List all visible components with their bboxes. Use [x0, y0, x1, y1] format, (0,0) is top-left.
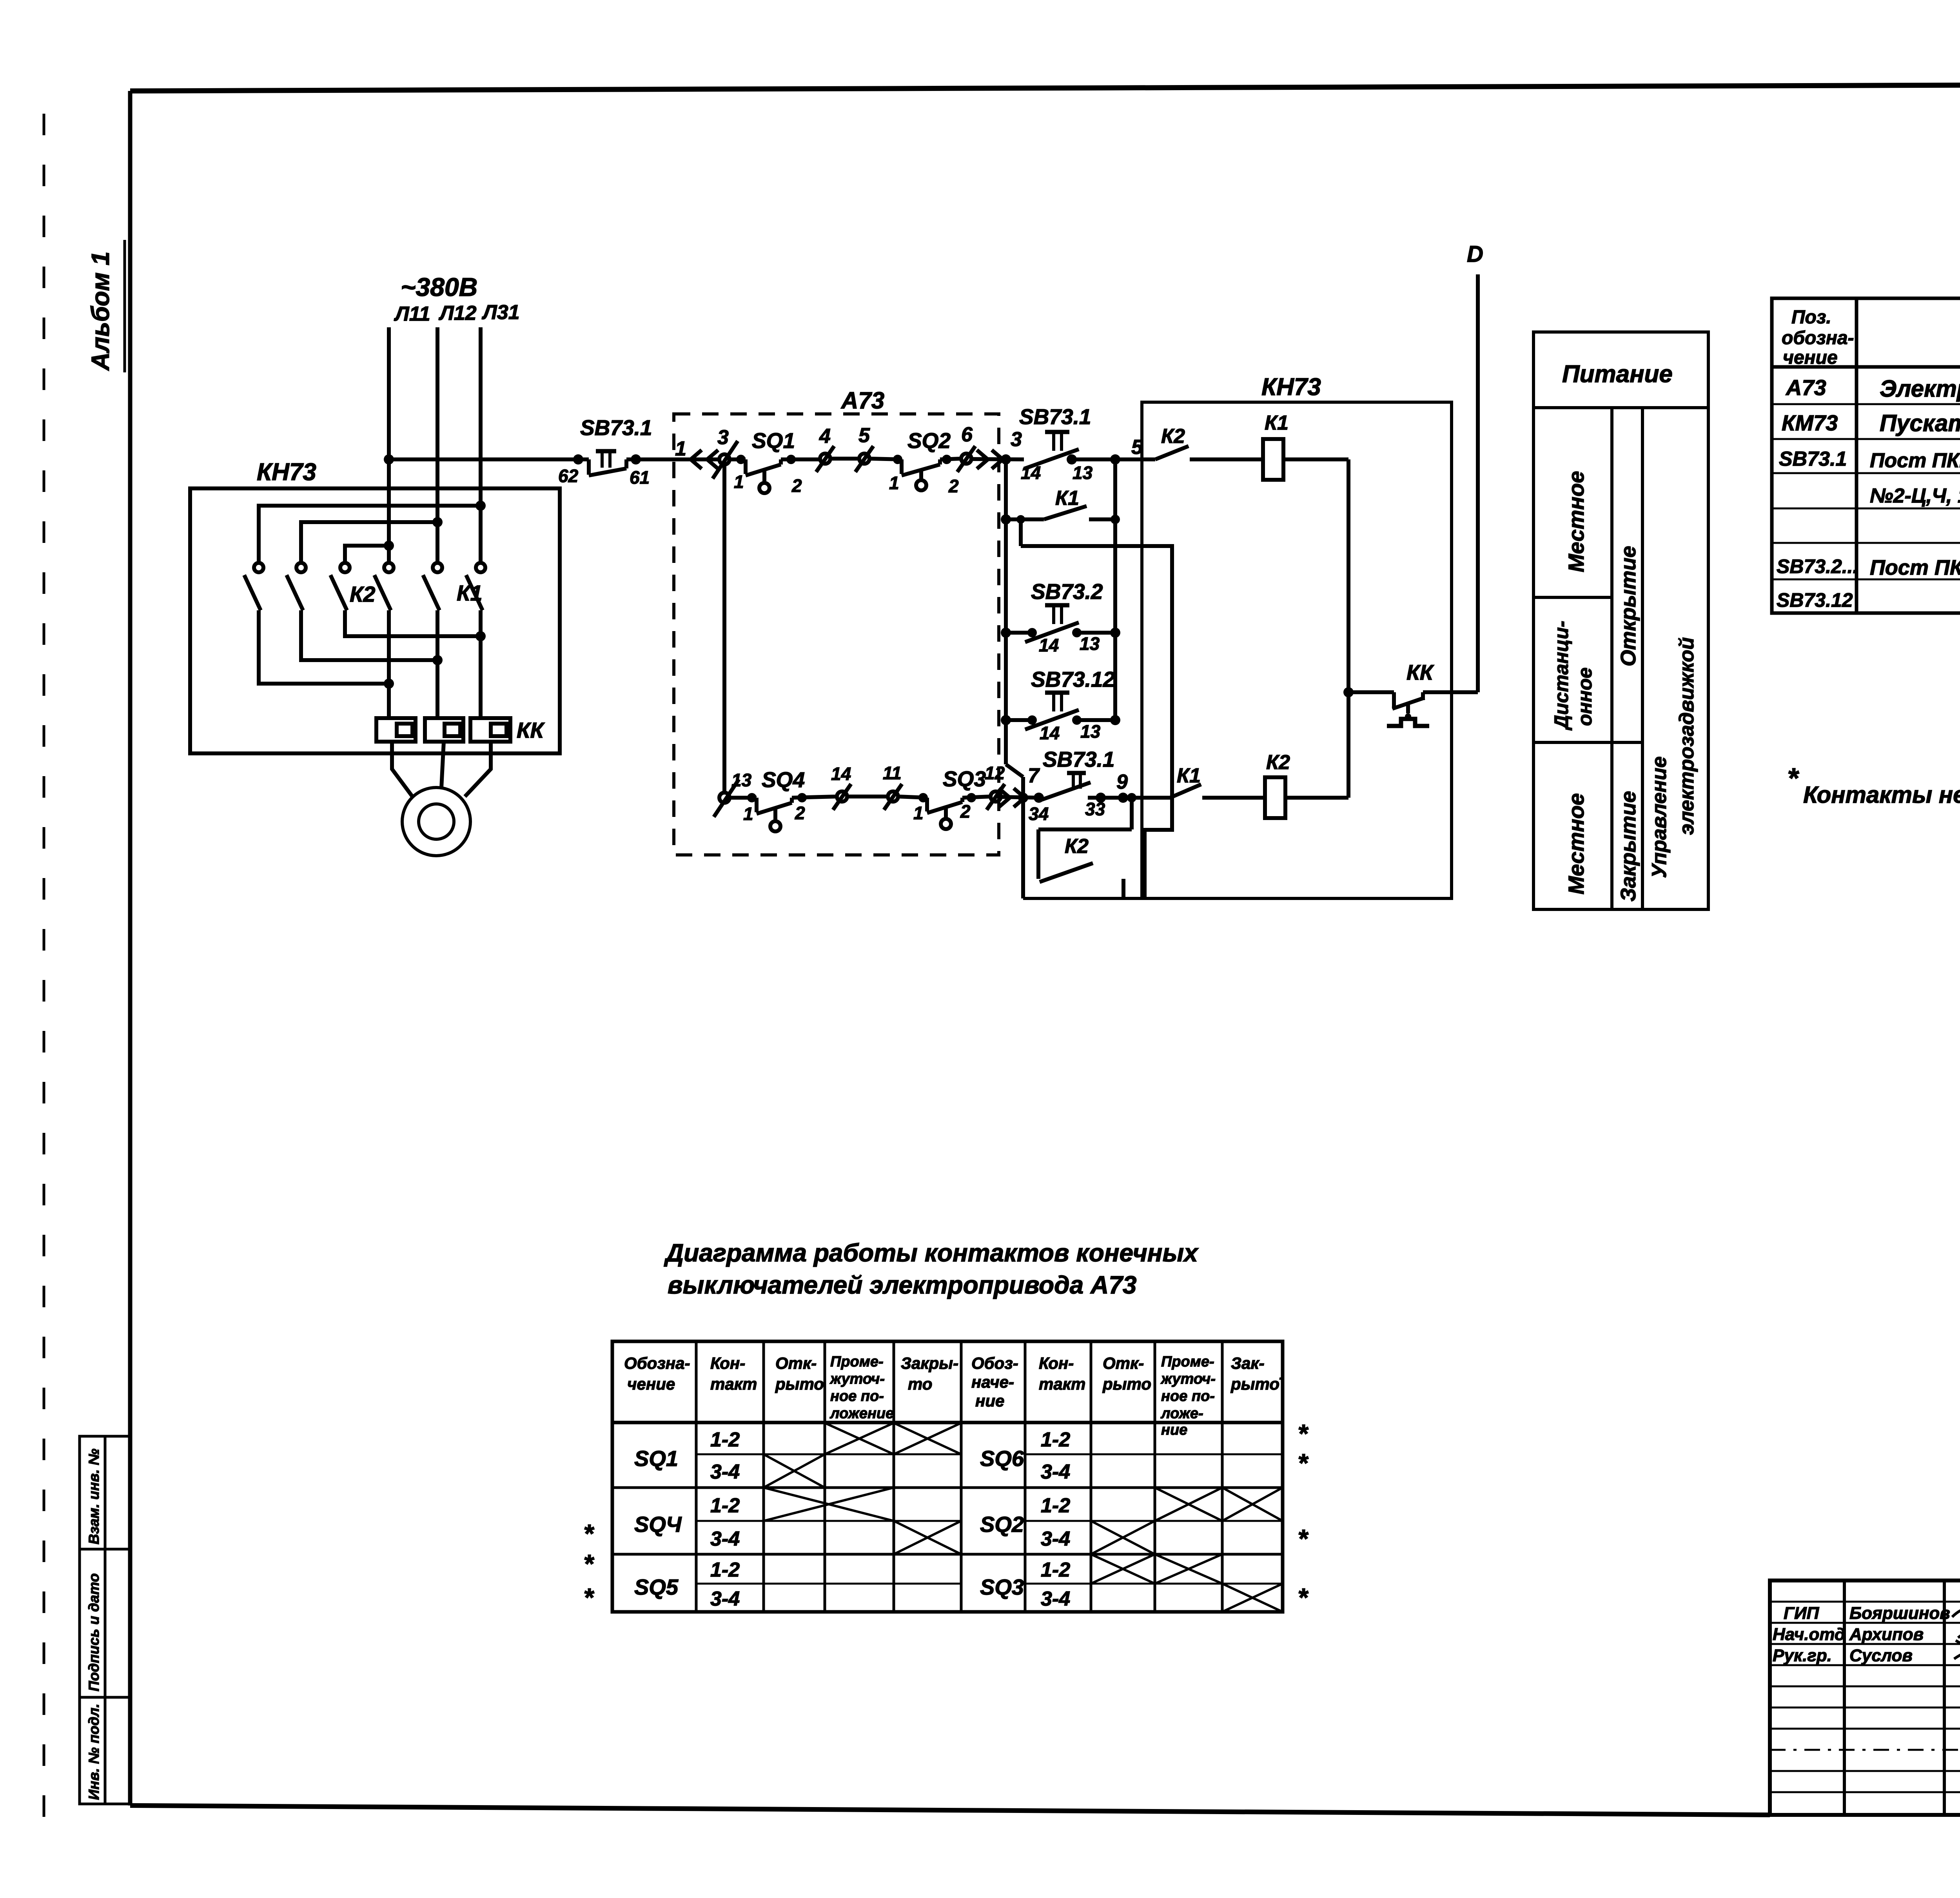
svg-text:62: 62	[558, 466, 579, 486]
svg-text:Диаграмма работы контактов кон: Диаграмма работы контактов конечных	[664, 1239, 1199, 1267]
svg-text:3-4: 3-4	[1041, 1588, 1070, 1610]
svg-text:9: 9	[1116, 771, 1128, 793]
svg-text:КК: КК	[517, 718, 545, 742]
svg-text:3-4: 3-4	[710, 1528, 740, 1550]
svg-text:2: 2	[795, 803, 805, 823]
svg-text:К1: К1	[457, 581, 483, 605]
svg-text:ние: ние	[1161, 1422, 1187, 1438]
svg-text:1: 1	[675, 437, 686, 460]
svg-text:электрозадвижкой: электрозадвижкой	[1675, 637, 1698, 835]
svg-text:Проме-: Проме-	[1161, 1354, 1214, 1370]
svg-text:SQ3: SQ3	[943, 767, 986, 791]
svg-text:К2: К2	[1161, 425, 1185, 448]
svg-text:жуточ-: жуточ-	[829, 1371, 885, 1387]
svg-text:14: 14	[1040, 723, 1060, 743]
svg-text:Л31: Л31	[481, 301, 520, 324]
svg-text:Бояршинов: Бояршинов	[1849, 1604, 1950, 1623]
svg-text:Кон-: Кон-	[710, 1354, 745, 1372]
svg-text:33: 33	[1085, 799, 1105, 819]
svg-text:1: 1	[913, 803, 924, 823]
svg-text:2: 2	[948, 476, 959, 496]
svg-text:К2: К2	[1266, 751, 1290, 774]
svg-text:*: *	[1788, 763, 1799, 794]
svg-text:то: то	[908, 1375, 932, 1393]
svg-text:13: 13	[731, 770, 752, 790]
svg-text:Питание: Питание	[1562, 361, 1673, 388]
svg-text:К1: К1	[1177, 764, 1201, 787]
svg-text:SQ1: SQ1	[634, 1446, 678, 1471]
svg-text:Подпись и дато: Подпись и дато	[86, 1573, 102, 1691]
svg-text:такт: такт	[710, 1375, 757, 1393]
svg-text:чение: чение	[627, 1375, 675, 1393]
svg-text:13: 13	[1080, 633, 1100, 654]
svg-text:5: 5	[1131, 436, 1143, 459]
svg-text:Л11: Л11	[394, 303, 430, 325]
svg-text:D: D	[1467, 241, 1483, 267]
svg-text:Альбом 1: Альбом 1	[86, 252, 114, 371]
svg-text:КН73: КН73	[257, 459, 316, 486]
svg-text:А73: А73	[1785, 375, 1826, 400]
svg-text:онное: онное	[1574, 668, 1596, 726]
svg-text:К2: К2	[1065, 835, 1089, 858]
svg-text:14: 14	[1039, 635, 1059, 655]
svg-text:1-2: 1-2	[710, 1428, 740, 1451]
svg-text:SQЧ: SQЧ	[634, 1512, 682, 1537]
svg-text:Проме-: Проме-	[830, 1354, 884, 1370]
svg-text:SQ4: SQ4	[762, 768, 805, 792]
svg-text:ное по-: ное по-	[1161, 1388, 1215, 1404]
svg-text:*: *	[583, 1549, 595, 1578]
svg-text:14: 14	[831, 764, 851, 784]
svg-text:Пост ПКЕ222-3У3, 1/2″; №1-Ц,4,: Пост ПКЕ222-3У3, 1/2″; №1-Ц,4, 1з+1р „От…	[1870, 449, 1960, 472]
svg-text:Закры-: Закры-	[901, 1354, 958, 1372]
svg-text:3-4: 3-4	[1041, 1528, 1070, 1550]
svg-text:рыто: рыто	[775, 1375, 824, 1393]
svg-text:SВ73.1: SВ73.1	[1043, 747, 1114, 771]
svg-text:SВ73.12: SВ73.12	[1777, 589, 1853, 611]
svg-text:1-2: 1-2	[710, 1494, 740, 1517]
svg-text:*: *	[1298, 1419, 1309, 1448]
svg-text:6: 6	[961, 423, 973, 446]
svg-text:КМ73: КМ73	[1782, 410, 1838, 435]
svg-text:SQ2: SQ2	[980, 1512, 1024, 1537]
svg-text:3: 3	[1011, 428, 1022, 451]
svg-text:SВ73.1: SВ73.1	[1019, 405, 1091, 429]
svg-text:Обозна-: Обозна-	[624, 1354, 690, 1372]
svg-text:Инв. № подл.: Инв. № подл.	[86, 1704, 102, 1800]
svg-text:ние: ние	[975, 1392, 1004, 1410]
svg-text:61: 61	[630, 467, 650, 488]
svg-text:обозна-: обозна-	[1782, 328, 1854, 348]
svg-text:Кон-: Кон-	[1039, 1354, 1074, 1372]
svg-text:34: 34	[1029, 804, 1049, 824]
svg-text:Дистанци-: Дистанци-	[1550, 621, 1572, 731]
svg-text:1: 1	[889, 473, 899, 493]
svg-text:13: 13	[1080, 721, 1101, 742]
svg-text:Пускатель магнитный: Пускатель магнитный	[1880, 410, 1960, 436]
svg-text:*: *	[583, 1519, 595, 1548]
svg-text:2: 2	[960, 801, 971, 822]
svg-text:Нач.отд: Нач.отд	[1773, 1625, 1845, 1644]
svg-text:2: 2	[791, 475, 802, 496]
svg-text:ложение: ложение	[829, 1405, 894, 1422]
svg-text:*: *	[1298, 1583, 1309, 1612]
svg-text:Архипов: Архипов	[1849, 1625, 1924, 1644]
svg-text:К2: К2	[350, 582, 376, 606]
svg-text:SQ6: SQ6	[980, 1446, 1024, 1471]
svg-text:ное по-: ное по-	[830, 1388, 884, 1404]
svg-text:чение: чение	[1783, 347, 1838, 368]
svg-text:1-2: 1-2	[710, 1559, 740, 1581]
svg-text:наче-: наче-	[971, 1373, 1014, 1391]
svg-text:такт: такт	[1039, 1375, 1085, 1393]
svg-text:SВ73.12: SВ73.12	[1031, 667, 1115, 691]
svg-text:жуточ-: жуточ-	[1160, 1371, 1216, 1387]
svg-text:4: 4	[819, 425, 831, 448]
svg-text:Пост ПКЕ222-1У3, 1/2″, 1з+1р,: Пост ПКЕ222-1У3, 1/2″, 1з+1р, „Пуск″	[1870, 556, 1960, 579]
svg-text:К1: К1	[1055, 487, 1079, 510]
svg-text:Взам. инв. №: Взам. инв. №	[86, 1449, 102, 1544]
svg-text:выключателей электропривода А7: выключателей электропривода А73	[668, 1271, 1136, 1299]
svg-text:Открытие: Открытие	[1617, 546, 1640, 666]
svg-text:Рук.гр.: Рук.гр.	[1773, 1646, 1832, 1665]
svg-text:Электрозадвижка: Электрозадвижка	[1880, 376, 1960, 402]
svg-text:3-4: 3-4	[710, 1588, 740, 1610]
svg-text:Управление: Управление	[1648, 757, 1671, 878]
svg-text:1: 1	[734, 472, 744, 492]
svg-text:Закрытие: Закрытие	[1617, 791, 1640, 902]
svg-text:~380В: ~380В	[401, 272, 477, 301]
svg-text:SВ73.2...: SВ73.2...	[1777, 555, 1858, 577]
svg-text:Зак-: Зак-	[1231, 1354, 1265, 1372]
svg-text:Местное: Местное	[1564, 471, 1588, 572]
svg-text:3: 3	[717, 426, 729, 449]
svg-text:3-4: 3-4	[1041, 1461, 1070, 1483]
svg-text:13: 13	[1073, 463, 1093, 483]
svg-text:рыто̇: рыто̇	[1230, 1375, 1282, 1393]
svg-text:К1: К1	[1265, 412, 1289, 434]
svg-text:1-2: 1-2	[1041, 1559, 1070, 1581]
svg-text:Л12: Л12	[438, 302, 477, 325]
svg-text:рыто: рыто	[1102, 1375, 1151, 1393]
svg-text:*: *	[1298, 1524, 1309, 1553]
svg-text:SQ1: SQ1	[752, 428, 795, 453]
svg-text:3-4: 3-4	[710, 1461, 740, 1483]
svg-text:1-2: 1-2	[1041, 1428, 1070, 1451]
svg-text:Обоз-: Обоз-	[971, 1354, 1018, 1372]
svg-text:№2-Ц,Ч, 1з+1р, „Закр.″; №3-Ц,: №2-Ц,Ч, 1з+1р, „Закр.″; №3-Ц, К, 1з+1р, …	[1870, 484, 1960, 507]
svg-text:Контакты не используются: Контакты не используются	[1803, 782, 1960, 808]
svg-text:Поз.: Поз.	[1791, 307, 1831, 328]
svg-text:*: *	[1298, 1448, 1309, 1477]
svg-text:1: 1	[743, 804, 753, 824]
svg-text:1-2: 1-2	[1041, 1494, 1070, 1517]
svg-text:SВ73.1: SВ73.1	[580, 416, 652, 440]
svg-text:Местное: Местное	[1564, 793, 1588, 895]
svg-text:SQ2: SQ2	[907, 428, 951, 453]
svg-text:Суслов: Суслов	[1849, 1646, 1913, 1665]
svg-text:SQ3: SQ3	[980, 1575, 1024, 1599]
svg-text:Отк-: Отк-	[775, 1354, 817, 1372]
svg-text:SВ73.1: SВ73.1	[1779, 448, 1847, 470]
svg-text:КН73: КН73	[1261, 374, 1321, 401]
svg-text:11: 11	[883, 763, 902, 783]
svg-text:SВ73.2: SВ73.2	[1031, 579, 1103, 604]
svg-text:А73: А73	[840, 387, 884, 414]
svg-text:7: 7	[1028, 764, 1040, 787]
svg-text:ложе-: ложе-	[1160, 1405, 1203, 1422]
svg-text:SQ5: SQ5	[634, 1575, 679, 1599]
svg-text:ГИП: ГИП	[1784, 1604, 1820, 1623]
svg-text:5: 5	[858, 424, 870, 447]
svg-text:*: *	[583, 1583, 595, 1612]
svg-text:12: 12	[985, 763, 1005, 783]
svg-text:КК: КК	[1406, 660, 1434, 684]
svg-text:Отк-: Отк-	[1103, 1354, 1144, 1372]
svg-text:14: 14	[1021, 463, 1041, 483]
